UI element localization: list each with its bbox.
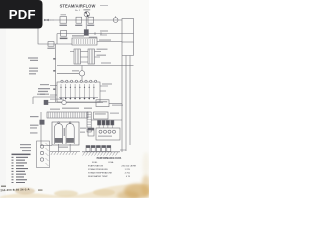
furnace box (52, 122, 79, 145)
label blowdown (37, 94, 64, 100)
label feed line (101, 62, 111, 63)
windbox W1 (96, 128, 120, 140)
drum tubes (60, 84, 94, 100)
wire coil links (70, 52, 101, 63)
air heater AH1 (72, 35, 111, 45)
flue duct box (122, 19, 134, 43)
ash hopper boxes (86, 146, 111, 152)
stop valve box U1 (60, 14, 68, 26)
label coil A (97, 49, 108, 56)
wire right risers (120, 42, 134, 152)
wire badge drop (38, 29, 72, 45)
deaerator box (96, 100, 123, 107)
wire air heater to duct (97, 41, 122, 43)
wire fan drop (85, 17, 87, 30)
blowdown valve (dark) (44, 100, 48, 104)
burner B1 (dark) (98, 120, 101, 125)
svg-text:PDF: PDF (9, 7, 36, 22)
wire left main vertical (55, 44, 57, 102)
desuperheater box (60, 31, 68, 39)
fan F1 (83, 9, 90, 17)
valve V1 (44, 19, 54, 21)
label water column (20, 144, 31, 151)
svg-text:PERFORMANCE DATA: PERFORMANCE DATA (97, 157, 122, 160)
valve V2 (113, 16, 118, 22)
label gauge L2 (29, 68, 56, 75)
svg-text:4 700: 4 700 (125, 173, 131, 175)
water column WC1 (37, 141, 50, 168)
burner B4 (dark) (111, 120, 114, 125)
wire second steam line (57, 34, 134, 44)
label steam lead (38, 88, 56, 92)
wire main steam line (44, 19, 122, 21)
superheater coil SH2 (88, 49, 95, 64)
wire base line (82, 151, 120, 153)
label furnace L1 (30, 116, 39, 134)
pump P1 (57, 66, 85, 83)
wire blowdown line (33, 97, 103, 104)
superheater coil SH1 (74, 49, 81, 64)
node tick T1 (95, 32, 101, 35)
svg-text:FUEL: FUEL (92, 162, 98, 164)
stamp note (0, 186, 42, 193)
label pump row (50, 108, 92, 110)
drum top vents (61, 80, 97, 82)
attemperator box (47, 42, 54, 49)
ground hatch furnace (51, 152, 77, 155)
wire drum left stubs (40, 84, 57, 95)
label gauge L1 (28, 57, 56, 61)
damper box (dark) (84, 30, 97, 38)
label furnace base (58, 147, 68, 148)
burner B2 (dark) (102, 120, 105, 125)
PDF badge (0, 0, 43, 29)
wire burner stems (99, 125, 112, 128)
control valve box U2 (75, 17, 82, 26)
wire furnace base (50, 144, 80, 152)
cyclone vessel CV2 (66, 122, 74, 144)
burner B3 (dark) (106, 120, 109, 125)
economizer header H1 (47, 112, 88, 118)
spec table (88, 157, 136, 178)
cyclone vessel CV1 (55, 122, 63, 144)
svg-text:FEEDWATER TEMP: FEEDWATER TEMP (88, 175, 108, 178)
valve V3 (dark) (40, 120, 44, 124)
riser column H2 (87, 112, 91, 132)
wire drum right stubs (100, 83, 112, 91)
svg-text:STEAM/AIRFLOW: STEAM/AIRFLOW (60, 4, 96, 9)
drum box D1 (57, 82, 100, 102)
legend table (12, 154, 31, 183)
control valve box U3 (87, 17, 94, 26)
pump P2 (62, 100, 66, 104)
svg-text:1 225: 1 225 (125, 169, 131, 171)
svg-text:STEAM PRESSURE: STEAM PRESSURE (88, 168, 108, 171)
label turbine lead (100, 30, 108, 35)
wire furnace left leads (41, 112, 52, 146)
svg-text:STEAM TEMPERATURE: STEAM TEMPERATURE (88, 172, 113, 175)
svg-text:230 000 LB/HR: 230 000 LB/HR (121, 165, 136, 167)
fan box F2 (88, 128, 94, 136)
svg-text:COAL: COAL (108, 161, 115, 164)
furnace interior marks (64, 128, 86, 136)
svg-text:EVAPORATION: EVAPORATION (88, 164, 104, 167)
mill box M1 (94, 112, 120, 119)
svg-text:No. 2: No. 2 (75, 10, 81, 12)
ground hatch (83, 152, 119, 156)
title STEAM/AIRFLOW (60, 4, 108, 12)
wire long feed line (57, 65, 134, 67)
wire burner line (91, 119, 122, 121)
